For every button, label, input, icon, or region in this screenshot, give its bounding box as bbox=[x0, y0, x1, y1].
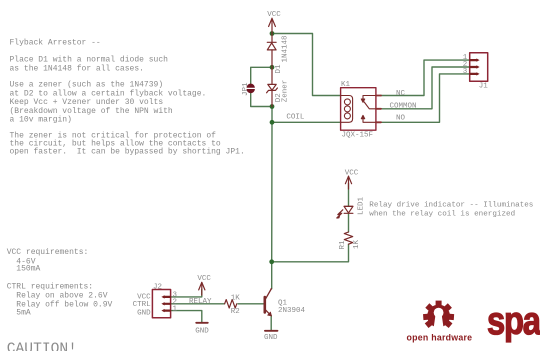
note paragraph top-left bbox=[10, 39, 245, 157]
wire JP1 branch top bbox=[251, 67, 272, 84]
svg-text:open faster. It can be bypass: open faster. It can be bypassed by short… bbox=[10, 148, 245, 157]
wire RELAY J2 pin2 to R2 bbox=[171, 303, 225, 305]
svg-text:K1: K1 bbox=[341, 81, 351, 89]
svg-text:5mA: 5mA bbox=[16, 308, 31, 317]
relay K1 switch contacts bbox=[361, 96, 376, 123]
svg-text:GND: GND bbox=[137, 309, 151, 317]
svg-text:as the 1N4148 for all cases.: as the 1N4148 for all cases. bbox=[10, 64, 144, 73]
svg-text:JP1: JP1 bbox=[242, 82, 250, 96]
relay K1 coil bbox=[341, 96, 353, 123]
svg-text:150mA: 150mA bbox=[16, 264, 40, 273]
svg-text:2N3904: 2N3904 bbox=[278, 307, 306, 315]
power VCC symbol top bbox=[269, 18, 276, 33]
note paragraph bottom-left requirements bbox=[7, 248, 113, 317]
resistor R2 bbox=[225, 300, 237, 308]
svg-text:Zener: Zener bbox=[281, 80, 289, 103]
svg-text:R2: R2 bbox=[231, 308, 240, 316]
wire J2 pin1 to GND bbox=[171, 311, 202, 323]
connector J2 pins bbox=[164, 297, 170, 311]
svg-text:COMMON: COMMON bbox=[390, 103, 417, 111]
wire LED cathode to R1 bbox=[348, 214, 350, 233]
svg-text:1: 1 bbox=[173, 305, 178, 313]
svg-text:Relay drive indicator -- Illum: Relay drive indicator -- Illuminates bbox=[369, 202, 533, 210]
ground symbol at Q1 bbox=[265, 330, 278, 332]
wire NC to J1 pin1 bbox=[381, 60, 470, 95]
svg-text:COIL: COIL bbox=[286, 114, 305, 122]
ground symbol at J2 bbox=[196, 322, 208, 324]
svg-text:1K: 1K bbox=[353, 239, 361, 249]
svg-text:Place D1 with a normal diode s: Place D1 with a normal diode such bbox=[10, 55, 169, 64]
svg-text:LED1: LED1 bbox=[357, 196, 365, 215]
svg-text:VCC: VCC bbox=[267, 11, 281, 19]
svg-text:open hardware: open hardware bbox=[407, 332, 473, 342]
LED LED1 bbox=[337, 206, 353, 218]
junction COIL bbox=[270, 120, 275, 125]
jumper JP1 bbox=[247, 84, 255, 94]
svg-text:VCC: VCC bbox=[345, 170, 359, 178]
connector J1 pin 1 bbox=[470, 60, 477, 74]
svg-text:VCC: VCC bbox=[197, 275, 211, 283]
svg-text:3: 3 bbox=[463, 68, 468, 76]
diode D1 bbox=[267, 34, 276, 68]
svg-text:Use a zener (such as the 1N473: Use a zener (such as the 1N4739) bbox=[10, 80, 164, 89]
svg-text:R1: R1 bbox=[339, 240, 347, 250]
wire LED branch horizontal bbox=[272, 244, 349, 262]
svg-text:Flyback Arrestor --: Flyback Arrestor -- bbox=[10, 39, 101, 48]
power VCC symbol at LED bbox=[345, 176, 351, 189]
svg-text:when the relay coil is energiz: when the relay coil is energized bbox=[369, 211, 515, 219]
svg-text:1N4148: 1N4148 bbox=[281, 35, 289, 62]
wire COMMON to J1 pin2 bbox=[381, 67, 470, 109]
svg-text:J2: J2 bbox=[153, 283, 162, 291]
svg-text:at D2 to allow a certain flyba: at D2 to allow a certain flyback voltage… bbox=[10, 89, 207, 98]
zener diode D2 bbox=[267, 67, 278, 106]
svg-text:a 10v margin): a 10v margin) bbox=[10, 115, 72, 124]
svg-text:NC: NC bbox=[396, 90, 406, 98]
wire R2 to Q1 base bbox=[238, 303, 264, 305]
svg-text:D1: D1 bbox=[275, 64, 283, 74]
svg-text:CTRL: CTRL bbox=[133, 301, 152, 309]
relay K1 right pins bbox=[376, 96, 381, 123]
svg-text:JQX-15F: JQX-15F bbox=[342, 131, 374, 139]
wire NO to J1 pin3 bbox=[381, 74, 470, 122]
junction JP1 bottom bbox=[270, 104, 275, 109]
logo open hardware gear bbox=[423, 301, 454, 328]
wire main vertical bus bbox=[271, 107, 273, 289]
power VCC symbol at J2 bbox=[199, 282, 205, 295]
relay K1 box bbox=[341, 88, 376, 131]
transistor Q1 bbox=[265, 289, 272, 316]
junction JP1 top bbox=[270, 65, 275, 70]
svg-text:J1: J1 bbox=[479, 83, 489, 91]
svg-text:spa: spa bbox=[487, 298, 540, 342]
junction LED branch bbox=[269, 259, 274, 264]
connector J2 box bbox=[152, 290, 170, 318]
svg-text:CTRL requirements:: CTRL requirements: bbox=[7, 283, 93, 292]
resistor R1 bbox=[344, 232, 352, 244]
wire Q1 emitter to GND bbox=[270, 316, 272, 331]
svg-text:Relay off below 0.9V: Relay off below 0.9V bbox=[16, 300, 112, 309]
svg-text:1K: 1K bbox=[231, 294, 241, 302]
wire JP1 branch bottom bbox=[251, 93, 272, 107]
wire COIL bbox=[272, 121, 341, 123]
schematic label texts bbox=[133, 11, 489, 342]
junction at VCC top bbox=[270, 31, 275, 36]
svg-text:CAUTION!: CAUTION! bbox=[7, 341, 77, 351]
svg-text:Keep Vcc + Vzener under 30 vol: Keep Vcc + Vzener under 30 volts bbox=[10, 98, 164, 107]
svg-text:RELAY: RELAY bbox=[189, 298, 212, 306]
note paragraph right (LED indicator) bbox=[369, 202, 533, 219]
svg-text:NO: NO bbox=[396, 115, 406, 123]
wire VCC junction to relay coil top bbox=[272, 34, 341, 96]
svg-text:GND: GND bbox=[264, 334, 278, 342]
wire J2 pin3 to VCC bbox=[171, 289, 202, 297]
wire VCC arrow to LED anode bbox=[348, 184, 350, 207]
svg-text:GND: GND bbox=[195, 328, 209, 336]
connector J1 box bbox=[470, 53, 488, 81]
svg-text:VCC requirements:: VCC requirements: bbox=[7, 248, 89, 257]
